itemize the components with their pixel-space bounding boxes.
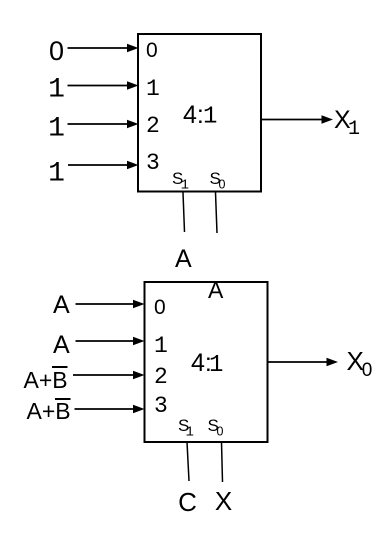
svg-text:0: 0 — [154, 296, 166, 319]
svg-text:A+B: A+B — [27, 398, 71, 424]
svg-text:0: 0 — [219, 178, 226, 192]
svg-text:4:: 4: — [183, 101, 204, 129]
svg-text:A: A — [53, 331, 70, 359]
svg-text:3: 3 — [146, 150, 160, 176]
svg-text:1: 1 — [48, 75, 65, 106]
svg-text:A: A — [175, 245, 192, 273]
svg-text:0: 0 — [49, 36, 64, 66]
svg-text:X: X — [215, 486, 232, 516]
svg-text:C: C — [178, 487, 197, 517]
svg-text:3: 3 — [154, 393, 168, 419]
svg-text:1: 1 — [348, 118, 360, 141]
svg-text:1: 1 — [146, 76, 160, 102]
svg-text:1: 1 — [203, 104, 217, 131]
svg-text:A: A — [53, 291, 70, 319]
svg-text:A+B: A+B — [24, 367, 68, 393]
svg-text:1: 1 — [48, 159, 65, 190]
svg-text:1: 1 — [181, 178, 189, 194]
svg-text:0: 0 — [146, 39, 158, 62]
svg-text:1: 1 — [48, 114, 65, 145]
svg-text:2: 2 — [146, 113, 160, 139]
svg-text:1: 1 — [186, 425, 194, 441]
svg-text:A: A — [208, 277, 224, 303]
svg-text:2: 2 — [154, 364, 168, 390]
svg-text:0: 0 — [217, 425, 224, 439]
svg-text:0: 0 — [362, 360, 373, 381]
svg-text:1: 1 — [209, 352, 223, 379]
svg-text:1: 1 — [154, 333, 168, 359]
